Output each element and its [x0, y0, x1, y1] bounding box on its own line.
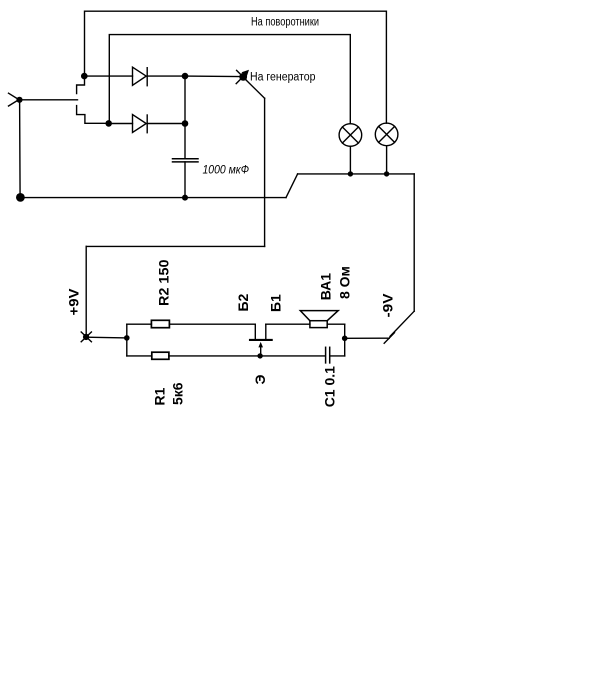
svg-text:Б2: Б2	[235, 293, 251, 311]
wire lamp HL1 bottom stub	[349, 146, 351, 174]
transistor VT1 B1 lead	[265, 324, 267, 340]
wire capacitor to bottom rail	[184, 162, 186, 198]
svg-text:8 Ом: 8 Ом	[336, 266, 352, 299]
capacitor C1 plates	[326, 347, 330, 363]
transistor VT1 emitter arrow	[258, 342, 263, 356]
wire R2 to B2	[169, 323, 255, 325]
wire lamp HL2 bottom stub	[386, 146, 388, 174]
terminal X1 (left input terminal cross)	[9, 93, 21, 106]
wire X1 down to ground rail	[19, 100, 22, 198]
diode VD2 anode wire	[109, 123, 133, 125]
node capacitor bottom dot	[182, 195, 188, 201]
node lamp HL1 dot	[348, 171, 353, 176]
wire generator terminal diagonal	[245, 79, 265, 98]
resistor R2	[151, 320, 169, 327]
terminal "На генератор" (arrow + cross)	[236, 70, 249, 84]
svg-text:ВА1: ВА1	[317, 273, 333, 301]
speaker BA1	[300, 311, 338, 328]
wire rail2 (to lamps inner)	[109, 35, 350, 124]
wire R1 to capacitor C1	[169, 355, 325, 357]
diode VD1 cathode wire	[147, 75, 185, 77]
wire right side vertical	[344, 324, 346, 356]
wire speaker to right vertical	[327, 323, 345, 325]
node contact top dot	[81, 73, 88, 80]
node bottom-left big junction	[16, 193, 25, 202]
svg-text:Э: Э	[252, 375, 268, 385]
wire right side down	[413, 174, 415, 311]
wire generator vertical down	[264, 98, 266, 246]
wire horizontal to left	[86, 245, 264, 247]
lamp HL2	[375, 123, 398, 146]
wire lamp bottom rail	[298, 173, 415, 175]
wire X1 to contact gap	[20, 99, 78, 101]
wire diagonal up to lamp rail	[286, 174, 298, 198]
capacitor C2 1000uF plates	[173, 159, 199, 162]
svg-text:R1: R1	[151, 387, 167, 405]
wire diagonal to -9V terminal	[390, 311, 414, 336]
terminal -9V cross	[384, 333, 394, 344]
terminal +9V cross	[81, 332, 91, 342]
wire left vertical down to +9V	[85, 246, 87, 336]
transistor VT1 B2 lead	[254, 324, 256, 340]
node lower diode junction dot	[105, 120, 112, 127]
wire C1 to right vertical	[330, 355, 345, 357]
wire top dot to generator terminal	[185, 75, 241, 78]
transistor VT1 base bar	[250, 339, 272, 341]
wire to -9V terminal	[345, 337, 390, 339]
wire diode bus down to capacitor	[184, 76, 186, 158]
svg-text:Б1: Б1	[268, 294, 284, 312]
svg-text:С1 0.1: С1 0.1	[321, 366, 337, 407]
wire +9V to divider node	[86, 336, 127, 339]
contact S1 lower step	[77, 106, 109, 124]
wire bottom rail to R1	[127, 355, 152, 357]
svg-text:5к6: 5к6	[170, 382, 186, 405]
diode VD1 anode wire	[84, 75, 132, 77]
svg-text:R2 150: R2 150	[155, 259, 171, 306]
svg-text:1000 мкФ: 1000 мкФ	[203, 164, 250, 176]
node emitter dot	[257, 353, 262, 358]
wire B1 to speaker	[266, 323, 310, 325]
diode VD2	[133, 115, 148, 133]
diode VD1	[133, 67, 148, 86]
node right side dot	[342, 336, 348, 342]
wire bottom rail	[20, 197, 286, 199]
svg-text:На поворотники: На поворотники	[251, 17, 319, 29]
node X1 junction dot	[16, 97, 22, 103]
node diode out bottom dot	[182, 120, 189, 127]
svg-text:На генератор: На генератор	[250, 71, 316, 83]
node diode out top dot	[182, 73, 189, 80]
wire rail1 (to lamps outer)	[85, 11, 387, 123]
node lamp HL2 dot	[384, 171, 389, 176]
contact S1 upper step	[77, 76, 85, 94]
diode VD2 cathode wire	[147, 123, 185, 125]
svg-text:-9V: -9V	[380, 293, 396, 318]
wire divider left vertical	[126, 324, 128, 356]
resistor R1	[152, 352, 169, 359]
svg-text:+9V: +9V	[65, 288, 81, 316]
wire top rail to R2	[127, 323, 152, 325]
lamp HL1	[339, 124, 362, 147]
node divider dot	[124, 335, 130, 341]
